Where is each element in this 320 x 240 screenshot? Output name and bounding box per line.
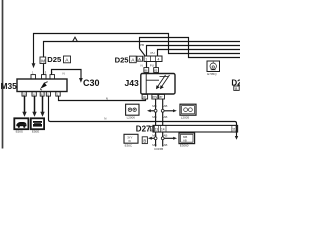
wire left mid seg [155, 112, 157, 125]
arrow head C30 [79, 78, 83, 83]
arrow head D25 into M35 [32, 63, 36, 68]
svg-text:AB: AB [163, 115, 167, 119]
wire left tail [155, 140, 157, 147]
wire L2 [140, 38, 241, 58]
svg-text:E3060: E3060 [180, 143, 189, 147]
svg-text:PU: PU [150, 64, 154, 68]
J43 contact arrowhead 2 [160, 85, 164, 89]
wire L5 [158, 50, 241, 56]
J43 coil lead [145, 74, 147, 95]
svg-text:MB: MB [152, 115, 157, 119]
M35 wiper sensor icon [40, 82, 47, 91]
arrow head M35 lamp3 [40, 112, 44, 117]
svg-text:MB: MB [152, 104, 157, 108]
wire row2 arrow right shaft [164, 137, 174, 139]
wire L4 [147, 46, 241, 56]
wire right mid seg [162, 112, 164, 125]
svg-text:AB: AB [163, 104, 167, 108]
M35 bottom pin box 3 [40, 92, 44, 96]
connector bar letter box [137, 56, 143, 61]
J43 top pin box 1 [144, 68, 149, 73]
wire L3 lower seg to pin [43, 64, 45, 75]
wire right tail [162, 140, 164, 147]
J43 inner horizontal [146, 79, 159, 81]
svg-text:L2005: L2005 [181, 115, 190, 119]
svg-text:N: N [63, 72, 65, 76]
J43 contact arm 2 [162, 75, 170, 87]
boxed B right edge [234, 86, 239, 90]
svg-text:C015B: C015B [154, 147, 163, 151]
arrow head bus end down [235, 136, 238, 140]
junction circle row2 left [154, 137, 157, 140]
wire M35 to D27 bus [49, 96, 237, 137]
svg-text:PU: PU [151, 51, 155, 55]
wire M35 arrow 3 [42, 96, 44, 113]
wire row1 arrow left shaft [150, 110, 154, 112]
wire M35 arrow 2 [34, 96, 36, 113]
svg-text:J43: J43 [125, 78, 140, 88]
wire row2 arrow left shaft [151, 137, 154, 139]
M35 top pin box 3 [50, 75, 55, 79]
wire L2 diagonal into bar [140, 49, 146, 56]
wire caret reference A [73, 37, 78, 41]
svg-text:E705Q: E705Q [207, 72, 217, 76]
component L2005 [180, 104, 196, 115]
svg-text:D27: D27 [136, 124, 151, 133]
M35 top pin box 1 [31, 75, 36, 79]
svg-text:1: 1 [145, 58, 147, 62]
boxed A D27 [150, 126, 154, 131]
component E705Q [207, 61, 220, 72]
wire J43 coil feed left [146, 62, 148, 68]
svg-text:N: N [141, 64, 143, 68]
M35 bottom pin box 4 [46, 92, 50, 96]
svg-text:E30C: E30C [125, 143, 133, 147]
connector letter box on wire (left) [40, 57, 46, 64]
junction circle row2 right [161, 137, 164, 140]
wire J43 out left upper [155, 99, 157, 109]
J43 contact arrowhead 1 [156, 85, 160, 89]
arrow head row1 right [173, 109, 177, 112]
svg-text:MB: MB [152, 134, 157, 138]
wire L3 long line [44, 42, 241, 58]
svg-text:N: N [106, 97, 108, 101]
svg-text:D25: D25 [115, 56, 130, 65]
wire left page border [2, 0, 4, 149]
svg-text:AB: AB [163, 143, 167, 147]
junction circle row1 right [161, 109, 164, 112]
J43 bottom pin box 1 [142, 94, 148, 99]
wire J43 coil feed right [155, 62, 157, 68]
wire row1 arrow right shaft [164, 110, 174, 112]
component E50S [14, 118, 28, 129]
boxed A middle [130, 56, 137, 63]
J43 bottom pin box 2 [152, 94, 158, 99]
boxed A left [64, 56, 71, 63]
component E50E [31, 118, 44, 129]
svg-text:N: N [104, 116, 106, 120]
arrow head row2 right [173, 137, 177, 140]
component L2006 [126, 104, 139, 115]
svg-text:M: M [41, 58, 45, 63]
J43 top pin box 2 [154, 68, 159, 73]
svg-text:11: 11 [232, 128, 236, 132]
J43 bottom pin box 3 [159, 94, 165, 99]
component J43 relay [141, 68, 175, 99]
svg-text:13: 13 [155, 128, 159, 132]
J43 contact arm 1 [158, 75, 166, 87]
connector bar D25 [144, 56, 162, 62]
svg-text:E50E: E50E [32, 129, 39, 133]
arrow head M35 lamp2 [32, 112, 36, 117]
connector letter box row2 [142, 137, 147, 144]
svg-text:AB: AB [183, 138, 187, 142]
wire C30 [52, 70, 82, 80]
wire M35 arrow 1 [24, 96, 26, 113]
svg-text:14: 14 [161, 128, 165, 132]
M35 bottom pin box 5 [56, 92, 60, 96]
svg-text:PB: PB [140, 43, 144, 47]
wire left below bus [155, 132, 157, 137]
wire M35 to J43 pin30 [59, 96, 146, 100]
arrow head row2 left [148, 137, 152, 140]
wire J43 out right upper [162, 99, 164, 109]
svg-text:B: B [143, 138, 146, 143]
junction circle row1 left [154, 109, 157, 112]
svg-text:M35: M35 [1, 81, 18, 91]
svg-text:87S: 87S [152, 95, 157, 99]
component E3060 [179, 133, 195, 144]
component M35 body [17, 75, 67, 97]
svg-text:L2006: L2006 [127, 115, 136, 119]
svg-text:D25: D25 [47, 55, 62, 64]
M35 bottom pin box 2 [32, 92, 36, 96]
component box E30C left [124, 134, 138, 143]
J43 inner top bar [160, 76, 169, 78]
svg-text:C30: C30 [83, 78, 100, 88]
svg-text:4: 4 [158, 58, 160, 62]
arrow head M35 lamp1 [22, 112, 26, 117]
wire L1 top bus line [34, 34, 241, 65]
arrow head row1 left [147, 109, 151, 112]
M35 top pin box 2 [42, 75, 47, 79]
wire right below bus [162, 132, 164, 137]
connector bus D27 [153, 125, 238, 132]
svg-text:AB: AB [163, 134, 167, 138]
svg-text:A: A [138, 57, 141, 61]
M35 bottom pin box 1 [22, 92, 26, 96]
svg-text:E50S: E50S [16, 129, 23, 133]
